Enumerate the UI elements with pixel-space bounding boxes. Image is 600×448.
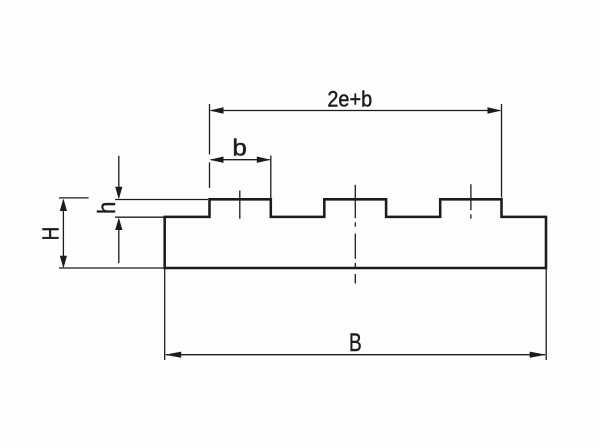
extension lines for B — [165, 268, 547, 360]
profile outline of toothed plate — [165, 199, 546, 268]
extension line right for 2e+b — [501, 104, 503, 198]
extension line left for 2e+b and b — [209, 104, 211, 188]
centerline middle (part axis) — [354, 185, 356, 284]
dimension line B — [166, 354, 545, 356]
dimension line b — [211, 159, 270, 161]
dimension line 2e+b — [211, 110, 500, 112]
extension line right for b — [270, 156, 272, 199]
svg-text:H: H — [38, 227, 65, 241]
svg-text:h: h — [93, 202, 120, 214]
dimension line H — [62, 200, 64, 267]
extension line bottom-left (for H) — [59, 267, 164, 269]
centerline tooth 1 — [239, 191, 241, 219]
svg-text:2e+b: 2e+b — [327, 88, 372, 112]
dimension h: lower arrow tail — [118, 220, 120, 264]
centerline tooth 3 — [470, 184, 472, 218]
extension lines top-left at tooth-top level (for H and h) — [59, 198, 208, 200]
svg-text:B: B — [349, 328, 362, 356]
svg-text:b: b — [232, 136, 246, 161]
dimension h: upper arrow tail — [118, 156, 120, 198]
extension line shoulder level (for h) — [115, 216, 163, 218]
